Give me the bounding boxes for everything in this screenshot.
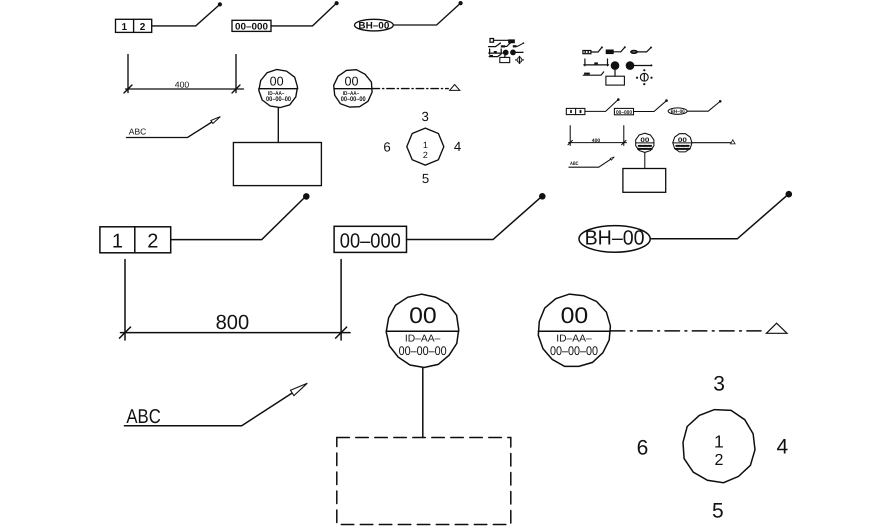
leader wire from box 00-000 (medium) [271,1,339,26]
numbered circle mini (micro) [515,56,524,64]
svg-text:400: 400 [592,138,601,144]
dimension 400 (tiny) [584,59,609,66]
instrument tag circle 1 (small) [636,133,654,152]
leader wire row c (micro) [513,42,525,47]
ABC leader (tiny) [583,72,603,75]
svg-text:1: 1 [423,140,428,150]
dash-dot extension wire (medium) [372,88,448,90]
leader wire from box 00-000 (tiny) [613,46,626,52]
callout box 1|2 (large) [100,227,171,253]
leader wire row b (micro) [501,42,511,47]
svg-text:ABC: ABC [129,126,146,136]
svg-text:1: 1 [112,231,123,253]
svg-text:2: 2 [140,22,146,33]
callout box 00-000 (small) [614,108,633,115]
numbered circle mini (tiny) [636,69,653,85]
svg-text:6: 6 [383,139,390,154]
ABC leader (small) [569,157,614,167]
dimension 800 (large) [120,260,351,341]
tag stem wire (micro) [504,55,506,57]
callout box 00-000 (micro) [509,40,514,43]
extension wire (micro) [516,52,524,53]
instrument tag circle 1 (medium) [259,70,298,108]
instrument tag circle 2 (tiny) [626,61,635,70]
open triangle terminator (medium) [450,85,460,91]
svg-text:BH–00: BH–00 [585,227,645,250]
callout box 1|2 (small) [566,108,585,114]
instrument tag circle 2 (large) [538,294,610,366]
callout box 00-000 (tiny) [606,50,613,53]
tag stem wire (medium) [277,108,279,143]
equipment box (medium) [233,143,321,186]
tag stem wire (large) [422,368,424,438]
extension wire (tiny) [634,64,652,66]
svg-text:5: 5 [712,499,724,522]
svg-text:4: 4 [777,436,789,459]
oval tag BH-00 (large) [579,226,650,253]
svg-text:1: 1 [714,432,724,452]
svg-text:00–00–00: 00–00–00 [266,96,291,103]
svg-text:800: 800 [216,311,250,334]
svg-text:00: 00 [409,303,437,328]
svg-text:BH–00: BH–00 [671,109,685,115]
leader wire from box 1|2 (large) [171,193,310,240]
svg-text:00–000: 00–000 [616,110,632,116]
leader wire from BH-00 (large) [650,191,792,239]
dimension 400 (small) [568,126,627,146]
svg-text:00–00–00: 00–00–00 [550,344,598,358]
leader wire from box 1|2 (small) [585,98,620,111]
instrument tag circle 2 (small) [673,134,692,152]
svg-text:00–00–00: 00–00–00 [399,344,447,358]
svg-text:00: 00 [640,137,649,144]
oval tag BH-00 (medium) [355,19,394,31]
tag stem wire (tiny) [614,70,616,76]
ABC leader (large) [124,383,307,428]
open triangle terminator (large) [766,323,787,333]
svg-text:BH–00: BH–00 [358,21,389,32]
svg-text:3: 3 [713,373,725,396]
svg-text:ID–AA–: ID–AA– [556,334,592,345]
instrument tag circle 1 (tiny) [611,61,620,70]
tag stem wire (small) [644,152,646,168]
svg-text:6: 6 [637,437,649,460]
oval tag BH-00 (small) [668,108,687,115]
svg-text:00: 00 [270,73,284,88]
svg-text:2: 2 [714,452,723,469]
svg-text:2: 2 [423,150,428,160]
svg-text:1: 1 [122,22,128,33]
callout box 00-000 (medium) [232,20,271,32]
instrument tag circle 1 (micro) [503,50,509,56]
svg-text:400: 400 [175,80,190,90]
instrument tag circle 2 (micro) [510,50,516,56]
equipment box (small) [623,169,666,193]
dash-dot extension wire (large) [610,330,761,332]
dimension (micro) [489,49,502,54]
ABC leader (medium) [127,117,221,138]
numbered circle (large) [637,373,789,523]
svg-text:ID–AA–: ID–AA– [405,334,441,345]
leader wire from BH-00 (medium) [393,1,462,25]
callout box 1|2 (micro) [490,39,494,43]
svg-text:2: 2 [147,231,158,253]
svg-text:ABC: ABC [126,406,160,428]
svg-text:00–00–00: 00–00–00 [341,96,366,103]
svg-text:00: 00 [561,303,589,328]
leader wire from BH-00 (small) [687,100,721,111]
extension wire (small) [692,142,734,144]
svg-text:00–000: 00–000 [340,230,401,253]
leader wire from box 00-000 (large) [407,193,546,240]
instrument tag circle 1 (large) [386,294,459,367]
leader wire from BH-00 (tiny) [637,47,652,52]
leader wire from box 1|2 (micro) [494,39,514,41]
open triangle terminator (small) [731,140,736,144]
ABC leader (micro) [489,55,500,57]
leader wire from box 00-000 (small) [634,99,668,111]
svg-text:3: 3 [422,109,429,124]
svg-text:4: 4 [454,139,461,154]
svg-text:00: 00 [345,73,359,88]
instrument tag circle 2 (medium) [334,70,372,107]
oval tag BH-00 (tiny) [631,50,638,53]
equipment box (micro) [500,57,510,62]
equipment box (tiny) [606,76,625,85]
leader wire from box 1|2 (tiny) [591,46,603,52]
leader wire row a (micro) [489,42,502,46]
svg-text:ABC: ABC [570,161,579,167]
leader wire from box 1|2 (medium) [152,2,222,26]
numbered octagon (medium) [383,109,461,186]
dashed equipment box (large) [337,438,511,525]
callout box 1|2 (tiny) [583,51,591,54]
callout box 1|2 (medium) [116,19,152,33]
svg-text:5: 5 [422,171,429,186]
callout box 00-000 (large) [334,226,406,252]
svg-text:00–000: 00–000 [235,21,268,32]
svg-text:00: 00 [678,137,687,144]
dimension 400 (medium) [124,55,244,93]
